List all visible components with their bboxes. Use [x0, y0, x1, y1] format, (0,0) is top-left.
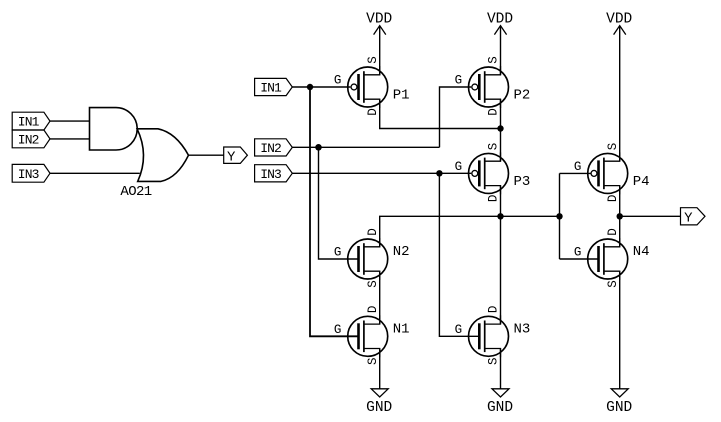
pin Y (right): [681, 208, 706, 227]
node IN2 junction: [315, 144, 322, 151]
transistor P3: [469, 143, 509, 202]
pin IN2 (left): [12, 130, 50, 148]
svg-text:G: G: [574, 246, 582, 260]
power VDD #1: [366, 11, 392, 34]
svg-text:P3: P3: [514, 174, 531, 190]
wire IN1 pin to P1 gate: [292, 86, 350, 88]
svg-text:P1: P1: [393, 88, 410, 104]
power VDD #2: [487, 11, 513, 34]
svg-text:P2: P2: [514, 88, 531, 104]
wire IN3 pin to P3 gate: [292, 172, 471, 174]
svg-text:G: G: [574, 160, 582, 174]
wire P3 drain to stage output: [500, 186, 502, 217]
pin IN1 (right): [255, 78, 293, 95]
svg-text:N2: N2: [393, 244, 410, 260]
svg-text:G: G: [334, 323, 342, 337]
wire N1 source to GND: [379, 349, 381, 389]
wire IN1 net down to N1 gate: [310, 87, 358, 336]
wire OR output to Y pin: [189, 154, 224, 156]
svg-text:G: G: [455, 74, 463, 88]
svg-text:Y: Y: [227, 149, 236, 165]
wire N2 source to N1 drain: [379, 271, 381, 324]
node P2 drain / P3 source junction: [497, 125, 503, 131]
svg-text:IN3: IN3: [18, 167, 39, 182]
svg-text:Y: Y: [684, 211, 693, 227]
wire gate rail to N4 gate: [560, 258, 599, 260]
wire VDD3 to P4 source: [619, 26, 621, 161]
wire gate rail to P4 gate: [560, 172, 591, 174]
node stage output at P4/N4 gate rail: [556, 213, 562, 219]
transistor P1: [348, 56, 388, 115]
wire output to Y pin: [620, 215, 681, 217]
node IN1 junction: [307, 84, 313, 90]
svg-text:IN1: IN1: [260, 81, 282, 96]
svg-text:AO21: AO21: [120, 184, 151, 200]
pin IN3 (right): [255, 165, 293, 182]
wire IN2 pin to riser: [292, 146, 439, 148]
AND gate (part of AO21): [90, 108, 138, 150]
svg-text:G: G: [455, 323, 463, 337]
svg-text:IN3: IN3: [260, 167, 281, 182]
wire IN2 net down to N2 gate: [319, 147, 359, 259]
transistor N2: [348, 228, 388, 287]
wire stage output bus to N2 drain: [380, 216, 560, 247]
svg-text:G: G: [334, 246, 342, 260]
wire N4 drain to output node: [619, 216, 621, 247]
pin IN2 (right): [255, 139, 293, 156]
wire P1 drain to P2/P3 node: [380, 99, 501, 128]
svg-text:IN2: IN2: [18, 133, 39, 148]
svg-text:N1: N1: [393, 321, 410, 337]
wire VDD1 to P1 source: [379, 26, 381, 75]
ground GND #3: [606, 389, 632, 416]
transistor N4: [588, 228, 628, 287]
transistor P4: [588, 143, 628, 202]
wire P4/N4 gate rail: [559, 173, 561, 259]
ground GND #1: [366, 389, 392, 416]
ground GND #2: [487, 389, 513, 416]
wire VDD2 to P2 source: [500, 26, 502, 75]
svg-text:G: G: [455, 160, 463, 174]
transistor N1: [348, 306, 388, 365]
pin IN1 (left): [12, 112, 50, 130]
wire IN1 to AND input: [50, 120, 90, 122]
node IN3 junction: [436, 170, 442, 176]
wire P4 drain to output node: [619, 186, 621, 217]
transistor P2: [469, 56, 509, 115]
wire N4 source to GND: [619, 271, 621, 389]
svg-text:IN2: IN2: [260, 141, 281, 156]
wire IN2 to AND input: [50, 138, 90, 140]
svg-text:G: G: [334, 74, 342, 88]
wire IN3 to OR input: [50, 172, 140, 174]
node output junction: [617, 213, 623, 219]
OR gate (part of AO21): [137, 129, 188, 182]
svg-text:N3: N3: [514, 321, 531, 337]
wire N3 source to GND: [500, 349, 502, 389]
wire IN2 riser up to P2 gate: [440, 87, 472, 147]
wire P2 drain to P3 source: [500, 99, 502, 161]
wire N3 drain up to stage output: [500, 216, 502, 324]
pin IN3 (left): [12, 164, 50, 182]
svg-text:IN1: IN1: [18, 115, 40, 130]
svg-text:P4: P4: [633, 174, 650, 190]
node stage output at P3/N3: [497, 213, 503, 219]
pin Y (left): [224, 147, 248, 165]
power VDD #3: [606, 11, 632, 34]
svg-text:N4: N4: [633, 244, 650, 260]
transistor N3: [469, 306, 509, 365]
wire IN3 net down to N3 gate: [439, 173, 479, 336]
